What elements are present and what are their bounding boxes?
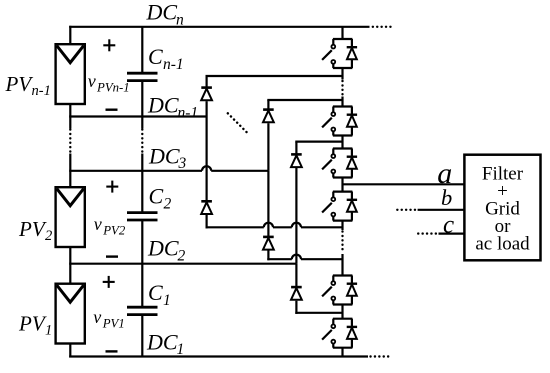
wire clamp D DCn-1 to D2 (crosses DC3) (206, 117, 208, 202)
wire phase c output (439, 233, 465, 235)
diode D1 (clamp) (201, 88, 212, 101)
svg-text:C: C (148, 280, 163, 305)
capacitor C1 (127, 307, 158, 314)
wire S5 to S6 (B clamp junction) (341, 305, 343, 319)
wire S6 to DC1 (341, 348, 343, 357)
wire cap column to DC3 (141, 154, 143, 171)
wire S2 to S3 (B clamp junction) (341, 136, 343, 149)
svg-text:PVn-1: PVn-1 (96, 81, 130, 95)
wire DC2 bus (69, 263, 296, 265)
wire DC3 bus (hop over clamp column D) (69, 166, 268, 171)
PV module PVn-1 (56, 44, 85, 104)
wire clamp D vertical top (206, 76, 208, 88)
svg-text:ac load: ac load (475, 234, 530, 255)
wire clamp A DC3 to A2 (267, 171, 269, 237)
svg-text:v: v (94, 214, 102, 234)
wire clamp B bottom line to switch column (295, 312, 342, 314)
wire S4 to junction (D clamp bottom) (341, 221, 343, 230)
svg-text:c: c (443, 211, 454, 238)
wire DC1 bus dotted continuation (371, 355, 389, 357)
wire PVn-1 bottom lead (69, 104, 71, 117)
wire DCn to S1 (341, 27, 343, 39)
switch S4 (with antiparallel diode) (322, 192, 357, 221)
wire clamp B vertical top (295, 142, 297, 155)
wire left column dotted (omitted levels) (69, 130, 71, 153)
label - (PV2) (106, 255, 118, 257)
wire DC2 to C1 (141, 264, 143, 308)
block Filter/Grid/ac-load box (464, 155, 540, 261)
node DC3 label (148, 143, 187, 172)
wire DCn bus (top) (69, 26, 369, 28)
wire B2 to bottom corner (295, 301, 297, 314)
diode B1 (clamp) (291, 154, 302, 167)
node PV1 label (18, 311, 52, 338)
svg-text:PV1: PV1 (102, 317, 125, 331)
diode B2 (clamp) (291, 287, 302, 300)
wire switch column dotted (omitted levels) (341, 81, 343, 96)
svg-text:C: C (149, 184, 164, 209)
svg-text:n-1: n-1 (32, 83, 51, 99)
wire C1 to DC1 (141, 315, 143, 357)
wire clamp D top corner to switch column (206, 75, 343, 77)
wire C2 to DC2 (141, 220, 143, 264)
wire left column below DCn-1 (69, 117, 71, 129)
wire phase c dotted (418, 232, 436, 234)
svg-text:3: 3 (178, 155, 187, 172)
svg-text:v: v (93, 307, 101, 327)
svg-text:2: 2 (164, 196, 172, 213)
svg-text:n-1: n-1 (178, 104, 199, 121)
wire clamp A top corner to switch column (267, 99, 342, 101)
diode A1 (clamp) (263, 110, 274, 123)
switch S2 (with antiparallel diode) (322, 107, 357, 136)
label + (PVn-1) (103, 39, 115, 51)
wire D1 to DCn-1 (206, 101, 208, 116)
diode A2 (clamp) (263, 237, 274, 250)
wire phase b dotted (397, 209, 415, 211)
wire Cn-1 to DCn-1 (141, 81, 143, 117)
svg-text:DC: DC (146, 0, 178, 25)
wire junction (A clamp) to S2 (341, 97, 343, 107)
node C1 label (148, 280, 171, 309)
wire B1 to DC2 (295, 168, 297, 264)
node C2 label (149, 184, 172, 213)
wire clamp A vertical top (267, 100, 269, 110)
wire A1 to DC3 (267, 123, 269, 171)
wire left column to DC3 (69, 154, 71, 171)
wire cap column below DCn-1 (141, 117, 143, 129)
label vPVn-1 (88, 71, 130, 95)
svg-text:PV2: PV2 (102, 224, 126, 238)
wire switch column dotted lower (omitted levels) (341, 232, 343, 254)
label - (PVn-1) (106, 108, 118, 110)
wire S3 to S4 (phase a junction) (341, 178, 343, 192)
node DCn-1 label (147, 93, 198, 122)
svg-text:v: v (88, 71, 96, 91)
svg-text:1: 1 (163, 292, 171, 309)
wire PV2 top lead (69, 171, 71, 188)
label - (PV1) (106, 350, 118, 352)
wire cap column dotted (omitted levels) (141, 130, 143, 153)
wire phase b output (418, 209, 465, 211)
node PVn-1 label (5, 72, 51, 99)
switch S3 (with antiparallel diode) (322, 149, 357, 178)
label + (PV1) (103, 276, 115, 288)
capacitor Cn-1 (127, 73, 158, 80)
wire DCn-1 bus (69, 115, 206, 117)
wire PV1 bottom lead (69, 344, 71, 358)
svg-text:PV: PV (18, 311, 47, 335)
label vPV1 (93, 307, 124, 331)
node phase b label (441, 185, 452, 210)
diode D2 (clamp) (201, 201, 212, 214)
PV module PV1 (56, 284, 85, 344)
svg-text:PV: PV (5, 72, 34, 96)
wire DC1 bus (bottom) (69, 355, 368, 357)
label vPV2 (94, 214, 126, 238)
switch S6 (with antiparallel diode) (322, 319, 357, 348)
svg-text:DC: DC (146, 329, 178, 354)
wire junction (A clamp bottom) to S5 (341, 254, 343, 276)
wire phase a output (343, 183, 465, 185)
dotted ellipsis (omitted clamp columns) (228, 113, 247, 132)
svg-text:n: n (176, 11, 184, 28)
wire DCn bus dotted continuation (373, 26, 391, 28)
capacitor C2 (127, 213, 158, 220)
svg-text:n-1: n-1 (163, 56, 184, 73)
node phase c label (443, 211, 454, 238)
svg-text:b: b (441, 185, 452, 210)
node DC1 label (146, 329, 184, 358)
svg-text:2: 2 (45, 228, 52, 244)
svg-text:DC: DC (148, 143, 180, 168)
node DC2 label (147, 236, 186, 265)
node PV2 label (18, 217, 52, 244)
switch S5 (with antiparallel diode) (322, 276, 357, 305)
wire PVn-1 top lead (69, 26, 71, 45)
wire A2 to bottom corner (267, 251, 269, 261)
wire DC3 to C2 (141, 171, 143, 213)
wire D2 to bottom corner (206, 215, 208, 229)
label + (PV2) (106, 181, 118, 193)
wire clamp A bottom line to switch column (hops B) (267, 255, 342, 260)
wire S1 to junction (D clamp) (341, 68, 343, 80)
wire PV1 top lead (69, 264, 71, 284)
svg-text:PV: PV (18, 217, 47, 241)
wire PV2 bottom lead (69, 247, 71, 264)
svg-text:C: C (148, 44, 163, 69)
wire clamp D bottom line to switch column (hops A,B) (206, 223, 343, 228)
wire cap column from DCn (141, 27, 143, 73)
svg-text:DC: DC (147, 236, 179, 261)
wire clamp B top corner to switch column (295, 141, 342, 143)
svg-text:1: 1 (45, 323, 52, 339)
svg-text:2: 2 (178, 247, 186, 264)
svg-text:1: 1 (177, 341, 185, 358)
node DCn label (146, 0, 185, 28)
PV module PV2 (56, 187, 85, 247)
wire clamp B DC2 to B2 (295, 264, 297, 287)
switch S1 (with antiparallel diode) (322, 39, 357, 68)
node Cn-1 label (148, 44, 184, 73)
svg-text:DC: DC (147, 93, 179, 118)
node phase a label (437, 157, 452, 190)
